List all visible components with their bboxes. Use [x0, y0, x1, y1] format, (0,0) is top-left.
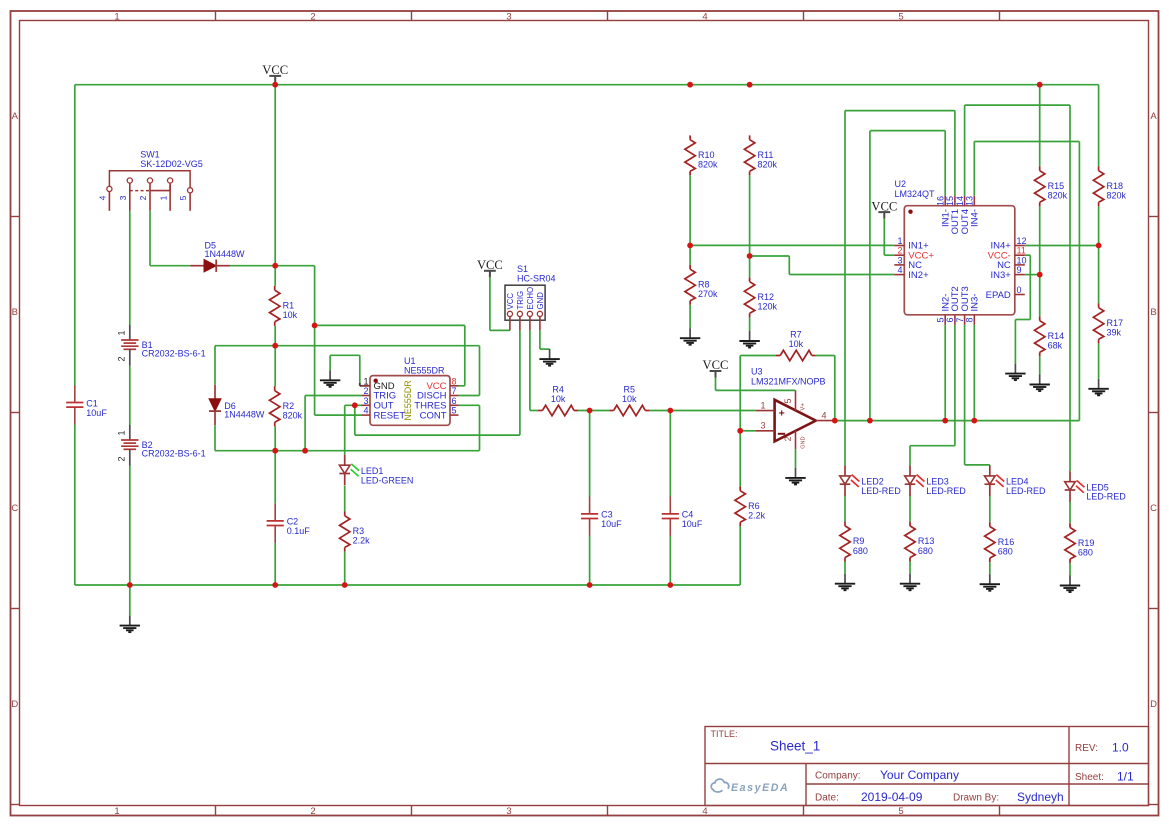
svg-text:LED-RED: LED-RED — [861, 486, 901, 496]
svg-text:Sheet_1: Sheet_1 — [770, 739, 820, 754]
svg-text:3: 3 — [118, 195, 128, 200]
svg-text:10uF: 10uF — [682, 519, 703, 529]
svg-text:Your Company: Your Company — [880, 768, 959, 782]
svg-text:VCC: VCC — [871, 199, 897, 213]
svg-text:1: 1 — [114, 806, 119, 817]
svg-text:120k: 120k — [758, 302, 778, 312]
svg-text:R13: R13 — [918, 536, 935, 546]
svg-text:D: D — [1150, 699, 1157, 710]
svg-text:Sheet:: Sheet: — [1075, 772, 1104, 783]
svg-text:R5: R5 — [624, 384, 636, 394]
svg-text:IN4-: IN4- — [970, 209, 981, 227]
svg-text:Date:: Date: — [815, 793, 839, 804]
svg-text:IN2+: IN2+ — [908, 270, 929, 281]
svg-text:LED-GREEN: LED-GREEN — [361, 475, 414, 485]
svg-text:6: 6 — [945, 318, 955, 323]
svg-text:CONT: CONT — [420, 410, 447, 421]
svg-text:10k: 10k — [551, 394, 566, 404]
svg-text:0.1uF: 0.1uF — [287, 526, 311, 536]
svg-text:10k: 10k — [283, 310, 298, 320]
svg-text:RESET: RESET — [374, 410, 406, 421]
svg-text:2: 2 — [310, 11, 315, 22]
svg-text:LED-RED: LED-RED — [1086, 492, 1126, 502]
svg-text:5: 5 — [783, 398, 793, 403]
svg-text:A: A — [12, 111, 19, 122]
svg-text:3: 3 — [760, 421, 765, 431]
svg-text:LM321MFX/NOPB: LM321MFX/NOPB — [751, 377, 826, 387]
svg-text:2: 2 — [897, 246, 902, 256]
svg-text:LED-RED: LED-RED — [926, 486, 966, 496]
svg-text:1: 1 — [117, 330, 127, 335]
svg-text:HC-SR04: HC-SR04 — [517, 274, 556, 284]
svg-text:R1: R1 — [283, 300, 295, 310]
svg-text:1: 1 — [158, 195, 168, 200]
svg-text:11: 11 — [1017, 246, 1026, 256]
svg-text:R3: R3 — [353, 526, 365, 536]
svg-text:10k: 10k — [622, 394, 637, 404]
svg-text:R18: R18 — [1107, 181, 1124, 191]
svg-text:5: 5 — [935, 318, 945, 323]
svg-text:C: C — [1150, 503, 1157, 514]
svg-text:5: 5 — [452, 406, 457, 416]
svg-text:9: 9 — [1017, 265, 1022, 275]
svg-text:+: + — [779, 407, 785, 419]
svg-text:NE555DR: NE555DR — [404, 365, 445, 375]
svg-text:R2: R2 — [283, 401, 295, 411]
svg-text:270k: 270k — [698, 289, 718, 299]
svg-text:2: 2 — [363, 386, 368, 396]
svg-text:C1: C1 — [86, 398, 98, 408]
svg-text:CR2032-BS-6-1: CR2032-BS-6-1 — [142, 449, 206, 459]
svg-text:1N4448W: 1N4448W — [205, 249, 246, 259]
svg-text:B: B — [12, 307, 18, 318]
svg-text:IN3+: IN3+ — [990, 270, 1011, 281]
svg-text:R16: R16 — [998, 537, 1015, 547]
svg-text:TITLE:: TITLE: — [711, 729, 738, 739]
svg-text:B: B — [1150, 307, 1156, 318]
svg-text:10uF: 10uF — [601, 519, 622, 529]
svg-text:2: 2 — [783, 436, 793, 441]
svg-text:VCC: VCC — [703, 358, 729, 372]
svg-text:680: 680 — [853, 546, 868, 556]
svg-text:1: 1 — [897, 236, 902, 246]
svg-text:NE555DR: NE555DR — [403, 380, 413, 421]
svg-text:V+: V+ — [801, 403, 807, 411]
svg-text:3: 3 — [897, 255, 902, 265]
svg-text:5: 5 — [178, 195, 188, 200]
svg-text:R7: R7 — [790, 329, 802, 339]
svg-text:VCC: VCC — [262, 63, 288, 77]
svg-text:A: A — [1150, 111, 1157, 122]
svg-text:2: 2 — [117, 456, 127, 461]
svg-text:15: 15 — [945, 196, 955, 206]
svg-text:1N4448W: 1N4448W — [224, 410, 265, 420]
svg-text:Drawn By:: Drawn By: — [953, 793, 999, 804]
svg-text:CR2032-BS-6-1: CR2032-BS-6-1 — [142, 349, 206, 359]
svg-text:680: 680 — [1078, 547, 1093, 557]
svg-text:D: D — [11, 699, 18, 710]
svg-text:7: 7 — [452, 386, 457, 396]
svg-text:4: 4 — [702, 11, 707, 22]
svg-text:1.0: 1.0 — [1112, 741, 1129, 755]
svg-text:Company:: Company: — [815, 771, 861, 782]
svg-text:Sydneyh: Sydneyh — [1017, 790, 1064, 804]
svg-text:C4: C4 — [682, 510, 694, 520]
svg-text:R11: R11 — [758, 150, 774, 160]
svg-text:R12: R12 — [758, 292, 775, 302]
svg-text:R9: R9 — [853, 536, 865, 546]
svg-text:R14: R14 — [1048, 331, 1065, 341]
svg-text:C3: C3 — [601, 510, 613, 520]
svg-text:820k: 820k — [1048, 191, 1068, 201]
svg-text:7: 7 — [955, 318, 965, 323]
svg-text:U2: U2 — [895, 179, 907, 189]
svg-text:16: 16 — [935, 196, 945, 206]
svg-text:10: 10 — [1017, 255, 1027, 265]
svg-text:2: 2 — [117, 356, 127, 361]
svg-text:EasyEDA: EasyEDA — [731, 782, 789, 794]
svg-text:R15: R15 — [1048, 181, 1065, 191]
svg-text:LED-RED: LED-RED — [1006, 486, 1046, 496]
svg-text:1: 1 — [114, 11, 119, 22]
svg-text:REV:: REV: — [1075, 743, 1098, 754]
svg-text:R4: R4 — [552, 384, 564, 394]
svg-text:C: C — [11, 503, 18, 514]
svg-text:14: 14 — [955, 196, 965, 206]
svg-text:2: 2 — [310, 806, 315, 817]
svg-text:VCC: VCC — [477, 258, 503, 272]
svg-text:GND: GND — [801, 437, 807, 449]
svg-text:2: 2 — [138, 195, 148, 200]
svg-text:680: 680 — [998, 546, 1013, 556]
svg-text:2.2k: 2.2k — [353, 536, 371, 546]
svg-text:GND: GND — [536, 292, 545, 310]
svg-text:820k: 820k — [1107, 191, 1127, 201]
svg-text:1: 1 — [760, 400, 765, 410]
svg-text:4: 4 — [897, 265, 902, 275]
svg-text:820k: 820k — [698, 160, 718, 170]
svg-text:1: 1 — [363, 376, 368, 386]
svg-text:ECHO: ECHO — [526, 287, 535, 310]
svg-text:2.2k: 2.2k — [748, 511, 766, 521]
svg-text:2019-04-09: 2019-04-09 — [861, 790, 923, 804]
svg-text:820k: 820k — [758, 160, 778, 170]
svg-text:6: 6 — [452, 396, 457, 406]
svg-text:3: 3 — [506, 806, 511, 817]
svg-text:R6: R6 — [748, 501, 760, 511]
svg-text:8: 8 — [452, 376, 457, 386]
svg-text:4: 4 — [98, 195, 108, 200]
svg-text:8: 8 — [965, 318, 975, 323]
svg-text:13: 13 — [965, 196, 975, 206]
svg-text:LM324QT: LM324QT — [895, 189, 936, 199]
svg-text:TRIG: TRIG — [516, 291, 525, 310]
svg-text:3: 3 — [506, 11, 511, 22]
svg-text:10k: 10k — [789, 339, 804, 349]
svg-text:C2: C2 — [287, 517, 299, 527]
svg-text:S1: S1 — [517, 264, 528, 274]
svg-text:4: 4 — [702, 806, 707, 817]
svg-text:12: 12 — [1017, 236, 1027, 246]
svg-text:VCC: VCC — [506, 293, 515, 310]
svg-text:EPAD: EPAD — [986, 290, 1011, 301]
svg-text:5: 5 — [898, 11, 903, 22]
svg-text:R19: R19 — [1078, 538, 1095, 548]
svg-text:5: 5 — [898, 806, 903, 817]
svg-text:1/1: 1/1 — [1117, 770, 1134, 784]
svg-text:4: 4 — [822, 410, 827, 420]
svg-text:U3: U3 — [751, 366, 763, 376]
svg-text:1: 1 — [117, 430, 127, 435]
svg-text:R10: R10 — [698, 150, 715, 160]
svg-text:0: 0 — [1017, 285, 1022, 295]
svg-text:R17: R17 — [1107, 318, 1124, 328]
svg-text:10uF: 10uF — [86, 408, 107, 418]
svg-text:4: 4 — [363, 406, 368, 416]
svg-text:820k: 820k — [283, 411, 303, 421]
svg-text:3: 3 — [363, 396, 368, 406]
svg-text:680: 680 — [918, 546, 933, 556]
svg-text:39k: 39k — [1107, 328, 1122, 338]
svg-text:IN3-: IN3- — [970, 294, 981, 312]
svg-text:68k: 68k — [1048, 341, 1063, 351]
svg-text:R8: R8 — [698, 279, 710, 289]
svg-text:SK-12D02-VG5: SK-12D02-VG5 — [140, 159, 203, 169]
